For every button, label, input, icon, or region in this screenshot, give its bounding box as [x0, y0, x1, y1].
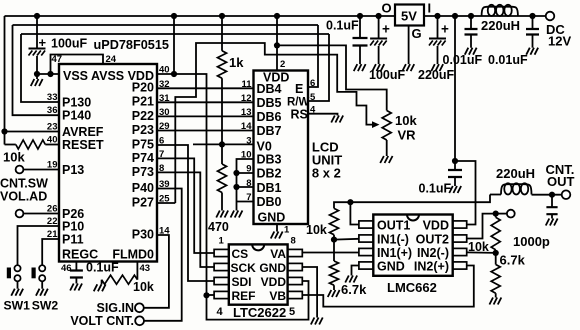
notch on LTC2622 [252, 244, 264, 250]
junction divider middle [493, 250, 499, 256]
wire 0.1uF to ground (LMC) [454, 177, 456, 186]
junction DB2 strap [233, 170, 239, 176]
resistor 6.7k gain set 2 [491, 265, 500, 294]
wire P13 to CNT.SW terminal [24, 169, 60, 171]
wire 0.1uF (5V) to ground [359, 46, 361, 65]
wire DB2 strap [237, 172, 254, 174]
svg-text:P74: P74 [132, 151, 154, 165]
arrowhead into VR wiper [372, 121, 380, 128]
svg-text:1000p: 1000p [513, 234, 550, 249]
wire left vertical rail2 down to P140 [13, 25, 60, 115]
wire left vertical +5V to AVREF and RESET pull-up [4, 16, 6, 145]
junction 100uF to VSS wire [34, 71, 40, 77]
svg-text:4: 4 [217, 306, 224, 318]
svg-text:SDI: SDI [232, 275, 252, 289]
svg-text:DB6: DB6 [257, 110, 282, 124]
capacitor 1000p [546, 207, 557, 214]
ground on LCD RS [331, 116, 343, 123]
junction REF node [203, 292, 209, 298]
wire 470 top lead [221, 144, 223, 164]
svg-text:DB2: DB2 [257, 167, 282, 181]
svg-text:REF: REF [232, 289, 256, 303]
switch SW2 contacts [39, 265, 45, 271]
svg-text:VOLT CNT.: VOLT CNT. [70, 314, 134, 328]
wire regulator G lead [408, 26, 410, 65]
wire SW1 to ground [17, 281, 19, 288]
wire SIG.IN to P30 [144, 235, 169, 308]
pin box LMC IN2(-) right [453, 248, 467, 255]
wire VSS node to MCU VSS pin [37, 73, 59, 75]
wire IN1(-) to node [334, 238, 359, 241]
svg-text:REGC: REGC [62, 248, 98, 262]
svg-text:0.01uF: 0.01uF [443, 53, 483, 67]
resistor 6.7k gain set 1 [330, 261, 339, 285]
wire OUT2 to divider top [467, 214, 496, 239]
wire SW2 to ground [41, 281, 43, 288]
wire 0.1uF (5V) top lead [359, 16, 361, 38]
pin box LMC OUT2 right [453, 235, 467, 242]
resistor 10k FLMD0 pull-down [102, 275, 138, 284]
svg-text:LTC2622: LTC2622 [233, 305, 286, 320]
pin box LTC REF [214, 291, 229, 298]
wire 100uF (5V) to ground [378, 46, 380, 64]
wire DB3 strap [237, 159, 254, 211]
wire VR bottom to ground [386, 140, 388, 156]
wire 12V rail (right of regulator) to DC input terminal [424, 15, 546, 17]
svg-text:10k: 10k [395, 113, 417, 128]
wire 6.7k to ground [333, 285, 335, 290]
terminal OUT2 test point [507, 210, 515, 218]
svg-text:13: 13 [241, 107, 252, 118]
wire P27 riser to VR wiper staircase [175, 43, 372, 203]
switch SW2 plunger [32, 268, 36, 279]
svg-text:DB5: DB5 [257, 96, 282, 110]
wire OUT1 node to inductor [350, 195, 490, 203]
wire VDD to VR top staircase [277, 45, 387, 110]
inductor 220uH input filter [482, 7, 518, 16]
svg-text:P10: P10 [62, 220, 84, 234]
svg-text:6.7k: 6.7k [500, 253, 526, 268]
terminal DC 12V input [546, 12, 555, 21]
pin box LMC VDD right [453, 221, 467, 228]
ground under DB0-DB3 strap [231, 211, 243, 218]
MCU U1 uPD78F0515 body [59, 64, 157, 262]
wire 0.01uF 2 to ground [532, 35, 534, 48]
svg-text:OUT: OUT [547, 174, 575, 189]
ground under SW2 [36, 289, 48, 296]
svg-text:V0: V0 [257, 140, 272, 154]
wire FLMD0 pin 43 lead [136, 262, 138, 280]
wire RESET pull-up right stub [45, 144, 59, 146]
pin box LMC GND [359, 262, 373, 269]
svg-text:DB3: DB3 [257, 153, 282, 167]
svg-text:8: 8 [291, 236, 296, 247]
svg-text:P11: P11 [62, 233, 84, 247]
wire V0 line to divider [193, 143, 254, 145]
ground under LTC GND [311, 318, 323, 325]
pin box LTC SCK [214, 263, 229, 270]
LCD module body [254, 71, 309, 225]
wire DB0 strap [237, 201, 254, 203]
ground under 100uF VSS node [31, 79, 43, 86]
ground under LCD GND [271, 232, 283, 239]
svg-text:12V: 12V [548, 34, 571, 49]
junction V0 divider node [219, 141, 225, 147]
svg-text:14: 14 [241, 121, 252, 132]
ground under 6.7k 2 [489, 298, 501, 305]
wire 1k bottom to V0 node [221, 78, 223, 144]
svg-text:10k: 10k [3, 150, 25, 165]
svg-text:AVREF: AVREF [62, 125, 104, 139]
wire 220uF positive lead [437, 16, 439, 38]
potentiometer VR 10k [382, 111, 391, 141]
wire P27 lead stub [157, 202, 175, 204]
junction OUT1 node [347, 199, 353, 205]
junction AVREF to +5V vertical [1, 128, 7, 134]
svg-text:GND: GND [377, 260, 405, 274]
svg-text:P22: P22 [132, 109, 154, 123]
resistor 1k (LCD contrast divider upper) [218, 51, 227, 78]
wire rail3 P130-to-LCD-RW across top [21, 33, 329, 35]
junction +5V at C 100uF [34, 13, 40, 19]
wire LTC VA to LMC IN1(+) [302, 252, 359, 254]
wire 220uF to ground [437, 46, 439, 64]
pin box LMC IN2(+) right [453, 262, 467, 269]
svg-text:+: + [441, 22, 449, 37]
svg-text:P23: P23 [132, 123, 154, 137]
svg-text:VR: VR [398, 128, 417, 143]
ground under SW1 [11, 289, 23, 296]
ground under 220uF [431, 64, 443, 71]
svg-text:IN2(-): IN2(-) [417, 246, 449, 260]
svg-text:P73: P73 [132, 165, 154, 179]
terminal CNT.SW (P13) [16, 166, 24, 174]
ground under REGC cap [70, 284, 82, 291]
svg-text:3: 3 [246, 135, 251, 146]
junction 12V rail at long vertical [452, 13, 458, 19]
svg-text:36: 36 [47, 105, 58, 116]
wire REGC pin 46 lead [75, 262, 77, 271]
pin box LMC IN1(-) [359, 235, 373, 242]
svg-text:220uH: 220uH [496, 166, 535, 181]
wire VOLT CNT. to P40 [144, 189, 182, 321]
wire P26 to VOL.AD terminal [24, 213, 60, 215]
wire 10k divider stub [495, 214, 497, 218]
capacitor 0.1uF on REGC [70, 271, 83, 278]
svg-text:GND: GND [259, 261, 286, 275]
ground under regulator G [402, 64, 414, 71]
svg-text:P130: P130 [62, 96, 91, 110]
terminal VOL.AD (P26) [16, 210, 24, 218]
capacitor 0.1uF at regulator output [353, 38, 368, 46]
capacitor 0.01uF input filter 2 [526, 29, 539, 35]
svg-text:uPD78F0515: uPD78F0515 [94, 38, 169, 52]
svg-text:33: 33 [47, 92, 58, 103]
ground under 0.1uF regulator [354, 64, 366, 71]
wire +5V riser to LCD VDD pin 2 [276, 16, 278, 71]
junction rail at 0.01uF 1 [468, 13, 474, 19]
svg-text:VDD: VDD [261, 275, 287, 289]
svg-text:OUT2: OUT2 [416, 233, 449, 247]
wire bus P21 to LCD DB5 [157, 101, 254, 103]
svg-text:12: 12 [241, 93, 252, 104]
wire LCD E to rail2 [308, 25, 318, 87]
junction LCD VDD / VR supply [274, 42, 280, 48]
svg-text:5: 5 [289, 306, 295, 318]
svg-text:220uH: 220uH [481, 18, 520, 33]
terminal CNT. OUT [562, 190, 571, 199]
junction rail at 0.1uF input cap [357, 13, 363, 19]
wire 0.1uF top lead [454, 161, 456, 170]
svg-text:CS: CS [232, 247, 249, 261]
wire 10k to IN1(-) node [333, 235, 335, 240]
svg-text:0.1uF: 0.1uF [326, 19, 359, 33]
svg-text:5V: 5V [401, 8, 417, 23]
wire 100uF negative lead to VSS node [36, 56, 38, 74]
wire 0.01uF 1 top lead [470, 16, 472, 29]
wire left vertical rail3 down to P130 [21, 34, 59, 102]
svg-text:RESET: RESET [62, 138, 104, 152]
wire 100uF (5V) positive lead [378, 16, 380, 38]
wire LCD RS to ground [308, 114, 338, 116]
resistor 10k RESET pull-up [16, 140, 46, 149]
ground under LMC GND [345, 276, 357, 283]
resistor 10k divider [491, 217, 500, 250]
junction +5V rail at 1k resistor [219, 13, 225, 19]
ground under 470 [216, 211, 228, 218]
svg-text:P20: P20 [132, 81, 154, 95]
wire P10 to SW1 [18, 226, 60, 265]
wire 100uF positive lead [36, 16, 38, 48]
svg-text:P140: P140 [62, 109, 91, 123]
svg-text:P13: P13 [62, 163, 84, 177]
svg-text:1: 1 [219, 236, 225, 247]
pin box LMC OUT1 [359, 221, 373, 228]
svg-text:470: 470 [208, 220, 229, 234]
svg-text:IN1(-): IN1(-) [377, 233, 409, 247]
svg-text:10k: 10k [306, 223, 327, 237]
ground under 0.01uF 2 [526, 48, 538, 55]
junction +5V rail at VDD riser [171, 13, 177, 19]
wire inductor left lead [490, 194, 501, 196]
svg-text:1k: 1k [229, 55, 244, 70]
svg-text:VB: VB [269, 289, 286, 303]
wire VDD pin 40 lead to REF riser [157, 74, 207, 296]
wire bus P22 to LCD DB6 [157, 115, 254, 117]
wire inductor to CNT OUT [532, 194, 562, 196]
wire DB1 strap [237, 186, 254, 188]
ground under VR [380, 156, 392, 163]
pin box LTC CS [214, 249, 229, 256]
wire P75 to LTC SDI [157, 145, 214, 281]
svg-text:P21: P21 [132, 95, 154, 109]
wire +5V riser to MCU VDD pin 40 [173, 16, 175, 74]
wire LTC GND to ground [302, 267, 317, 318]
wire REF to LTC VDD loop [207, 281, 309, 320]
ground under 0.1uF LMC [449, 186, 461, 193]
ground under 6.7k 1 [328, 290, 340, 297]
wire bus P23 to LCD DB7 [157, 130, 254, 132]
wire 6.7k top lead [333, 240, 335, 261]
svg-text:LMC662: LMC662 [387, 280, 437, 295]
junction rail at 100uF [376, 13, 382, 19]
junction VSS/AVSS strap [47, 71, 53, 77]
svg-text:P40: P40 [132, 181, 154, 195]
wire rail2 P140-to-LCD-E across top [13, 24, 319, 26]
svg-text:10k: 10k [133, 280, 154, 294]
wire FLMD0 resistor to ground [101, 280, 103, 285]
wire 1k top lead [221, 16, 223, 51]
ground under 0.01uF 1 [465, 48, 477, 55]
junction +5V rail at LCD VDD riser [274, 13, 280, 19]
svg-text:SIG.IN: SIG.IN [96, 301, 134, 315]
svg-text:I: I [428, 1, 432, 16]
wire 0.01uF 1 to ground [470, 35, 472, 48]
pin box LTC SDI [214, 277, 229, 284]
wire 0.01uF 2 top lead [532, 16, 534, 29]
svg-text:G: G [412, 26, 422, 41]
wire REF pin stub [207, 294, 215, 296]
svg-text:0.1uF: 0.1uF [86, 261, 119, 275]
svg-text:46: 46 [61, 263, 72, 274]
ground under 100uF regulator [372, 64, 384, 71]
svg-text:2: 2 [280, 59, 285, 70]
svg-text:8 x 2: 8 x 2 [312, 166, 341, 181]
svg-text:FLMD0: FLMD0 [112, 248, 154, 262]
capacitor 100uF (top left electrolytic) [29, 48, 46, 50]
junction CNT OUT node [549, 192, 555, 198]
svg-text:E: E [295, 82, 303, 96]
svg-text:IN1(+): IN1(+) [377, 246, 412, 260]
svg-text:DB1: DB1 [257, 181, 282, 195]
svg-text:P27: P27 [132, 195, 154, 209]
svg-text:OUT1: OUT1 [377, 219, 410, 233]
svg-text:SCK: SCK [231, 261, 257, 275]
svg-text:DB4: DB4 [257, 82, 282, 96]
capacitor 0.1uF near LMC [448, 170, 462, 177]
svg-text:VOL.AD: VOL.AD [0, 190, 47, 204]
capacitor 100uF at regulator output [370, 38, 387, 40]
switch SW1 plunger [7, 268, 11, 279]
terminal SIG.IN [135, 303, 144, 312]
capacitor 220uF at regulator input [429, 38, 446, 40]
svg-text:220uF: 220uF [418, 68, 454, 82]
svg-text:VSS AVSS: VSS AVSS [63, 69, 124, 83]
wire 1000p to ground [551, 214, 553, 218]
svg-text:SW1: SW1 [4, 299, 31, 313]
svg-text:GND: GND [258, 211, 286, 225]
wire P74 to LTC CS [157, 158, 214, 253]
pin box LTC VB right [288, 291, 303, 298]
svg-text:O: O [382, 1, 392, 16]
capacitor 0.01uF input filter 1 [465, 29, 478, 35]
notch on LMC662 [407, 215, 419, 221]
wire +5V top rail (left of regulator) [5, 15, 396, 17]
svg-text:VDD: VDD [423, 219, 449, 233]
svg-text:P75: P75 [132, 137, 154, 151]
wire divider to IN2(-) [467, 251, 496, 254]
switch SW1 contacts [14, 265, 20, 271]
svg-text:11: 11 [241, 79, 252, 90]
op-amp U3 LMC662 body [373, 215, 452, 276]
wire pin47 to pin24 strap [51, 55, 104, 75]
ground under FLMD0 resistor [94, 284, 106, 291]
wire 12V to LMC VDD [455, 161, 476, 225]
junction 12V at 0.1uF [452, 158, 458, 164]
wire LCD R/W to rail3 [308, 34, 329, 101]
ground under 1000p [546, 219, 558, 226]
inductor 220uH output filter [501, 184, 532, 194]
wire LCD GND pin 1 to ground [276, 224, 278, 232]
wire bus P20 to LCD DB4 [157, 87, 254, 89]
svg-text:6.7k: 6.7k [341, 282, 367, 297]
wire OUT1 node to 10k feedback [334, 202, 350, 208]
svg-text:DB7: DB7 [257, 124, 282, 138]
wire 6.7k 2 to ground [495, 293, 497, 297]
junction VDD pin 40 [171, 71, 177, 77]
DAC U2 LTC2622 body [229, 244, 288, 304]
svg-text:RS: RS [291, 108, 308, 122]
resistor 470 (LCD contrast divider lower) [218, 164, 227, 193]
junction rail at 220uF [434, 13, 440, 19]
svg-text:0.01uF: 0.01uF [488, 53, 528, 67]
svg-text:VA: VA [270, 247, 286, 261]
wire P73 to LTC SCK [157, 172, 214, 267]
svg-text:P30: P30 [132, 227, 154, 241]
pin box LTC GND right [288, 263, 303, 270]
svg-text:1: 1 [284, 225, 290, 236]
junction rail at 0.01uF 2 [529, 13, 535, 19]
wire OUT1 to node [350, 202, 359, 224]
svg-text:IN2(+): IN2(+) [414, 260, 449, 274]
svg-text:SW2: SW2 [32, 299, 59, 313]
svg-text:0.1uF: 0.1uF [419, 182, 452, 196]
resistor 10k feedback [330, 208, 339, 234]
svg-text:CNT.SW: CNT.SW [0, 177, 48, 191]
pin box LTC VDD right [288, 277, 303, 284]
regulator 5V body [395, 5, 424, 26]
junction divider top [493, 211, 499, 217]
wire REGC cap to ground [75, 278, 77, 284]
wire LMC GND to ground [352, 266, 359, 276]
wire 12V long vertical [454, 16, 456, 161]
svg-text:DB0: DB0 [257, 195, 282, 209]
svg-text:100uF: 100uF [51, 37, 87, 51]
wire VSS node ground stem [36, 74, 38, 79]
wire 1000p top lead [551, 195, 553, 207]
wire 6.7k 2 top lead [495, 253, 497, 265]
wire 470 bottom lead to ground [221, 193, 223, 211]
svg-text:+: + [382, 22, 390, 37]
svg-text:43: 43 [140, 263, 151, 274]
wire RESET pull-up left stub [5, 144, 16, 146]
terminal VOLT CNT. [135, 316, 144, 325]
wire AVREF to +5V vertical [5, 131, 60, 133]
junction IN1(-) node [331, 237, 337, 243]
svg-text:100uF: 100uF [369, 68, 405, 82]
pin box LMC IN1(+) [359, 248, 373, 255]
pin box LTC VA right [288, 249, 303, 256]
wire divider top to terminal [496, 213, 507, 215]
wire P11 to SW2 [42, 239, 59, 265]
wire LTC VB to LMC IN2(+) [302, 266, 473, 307]
junction DB1 strap [233, 184, 239, 190]
